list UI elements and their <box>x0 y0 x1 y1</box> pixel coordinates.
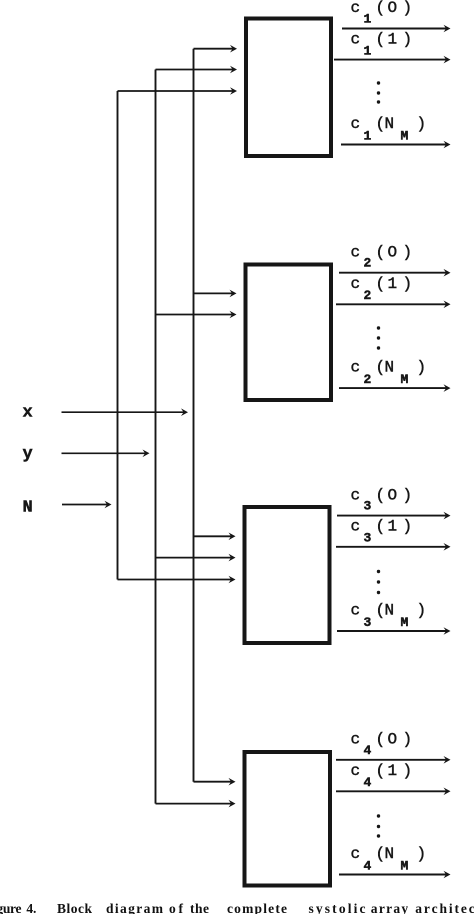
svg-text:): ) <box>417 845 427 863</box>
svg-text:Figure: Figure <box>0 901 22 914</box>
svg-text:c: c <box>351 243 361 261</box>
svg-text:4: 4 <box>364 775 372 790</box>
svg-text:the: the <box>190 901 209 914</box>
svg-text:M: M <box>401 615 409 630</box>
svg-text:): ) <box>403 518 413 536</box>
svg-text:c: c <box>351 275 361 293</box>
svg-text:): ) <box>403 731 413 749</box>
svg-text:): ) <box>403 0 413 17</box>
svg-text:c: c <box>351 115 361 133</box>
svg-text:1: 1 <box>388 30 398 48</box>
svg-text:M: M <box>401 858 409 873</box>
svg-text:c: c <box>351 731 361 749</box>
svg-text:4: 4 <box>364 858 372 873</box>
svg-text:): ) <box>403 30 413 48</box>
svg-text:(: ( <box>376 275 386 293</box>
svg-text:): ) <box>417 359 427 377</box>
svg-text:N: N <box>23 499 33 518</box>
svg-text:x: x <box>23 404 33 423</box>
svg-text:N: N <box>385 602 395 620</box>
svg-text:1: 1 <box>388 275 398 293</box>
svg-text:c: c <box>351 486 361 504</box>
svg-text:c: c <box>351 30 361 48</box>
svg-text:c: c <box>351 518 361 536</box>
svg-text:c: c <box>351 359 361 377</box>
svg-text:(: ( <box>376 243 386 261</box>
svg-text:4: 4 <box>364 743 372 758</box>
svg-text:O: O <box>388 0 398 17</box>
svg-text:): ) <box>403 762 413 780</box>
svg-text:architecture.: architecture. <box>415 901 474 914</box>
svg-text:2: 2 <box>364 288 372 303</box>
svg-text:c: c <box>351 602 361 620</box>
svg-text:(: ( <box>376 731 386 749</box>
svg-text:array: array <box>371 901 409 914</box>
svg-text:N: N <box>385 845 395 863</box>
svg-text:c: c <box>351 0 361 17</box>
svg-text:): ) <box>403 486 413 504</box>
svg-text:1: 1 <box>388 518 398 536</box>
svg-text:2: 2 <box>364 372 372 387</box>
svg-text:Block: Block <box>57 901 92 914</box>
svg-text:): ) <box>403 275 413 293</box>
svg-text:3: 3 <box>364 615 372 630</box>
svg-text:N: N <box>385 115 395 133</box>
svg-text:c: c <box>351 845 361 863</box>
svg-text:(: ( <box>376 762 386 780</box>
svg-text:O: O <box>388 731 398 749</box>
svg-text:diagram: diagram <box>106 901 164 914</box>
svg-text:(: ( <box>376 486 386 504</box>
svg-text:2: 2 <box>364 256 372 271</box>
svg-text:N: N <box>385 359 395 377</box>
svg-text:3: 3 <box>364 531 372 546</box>
svg-text:O: O <box>388 486 398 504</box>
svg-text:M: M <box>401 128 409 143</box>
svg-text:1: 1 <box>364 43 372 58</box>
svg-text:): ) <box>417 602 427 620</box>
svg-text:M: M <box>401 372 409 387</box>
svg-text:3: 3 <box>364 499 372 514</box>
svg-text:): ) <box>403 243 413 261</box>
svg-text:O: O <box>388 243 398 261</box>
svg-text:(: ( <box>376 518 386 536</box>
svg-text:4.: 4. <box>26 901 36 914</box>
svg-text:y: y <box>23 445 33 464</box>
svg-text:c: c <box>351 762 361 780</box>
svg-text:(: ( <box>376 0 386 17</box>
svg-text:): ) <box>417 115 427 133</box>
svg-text:1: 1 <box>388 762 398 780</box>
svg-text:complete: complete <box>227 901 287 914</box>
svg-text:1: 1 <box>364 128 372 143</box>
svg-text:1: 1 <box>364 12 372 27</box>
svg-text:(: ( <box>376 30 386 48</box>
